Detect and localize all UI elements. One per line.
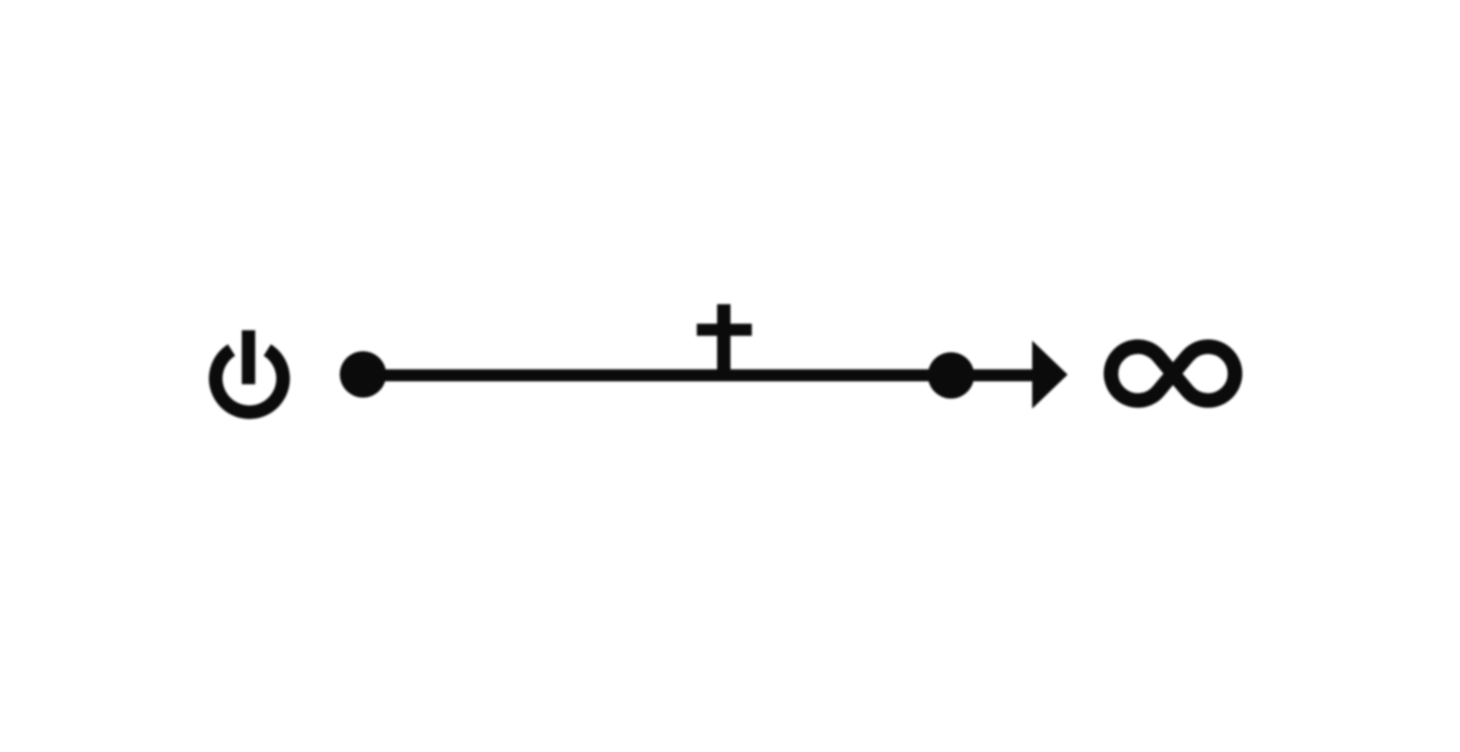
node dot right (end) (928, 352, 974, 398)
wire: timeline from start dot to arrow (363, 369, 1034, 381)
infinity symbol (eternity) (1111, 347, 1235, 401)
cross (death marker) (697, 304, 752, 375)
arrow head (1032, 341, 1067, 409)
power symbol (birth) (216, 330, 283, 412)
node dot left (start) (340, 351, 386, 397)
